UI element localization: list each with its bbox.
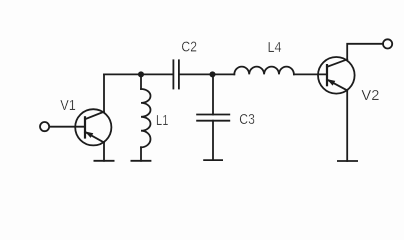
ground under L1	[131, 160, 150, 162]
output terminal	[383, 39, 392, 48]
node junction at C3	[209, 71, 215, 77]
svg-text:L4: L4	[268, 39, 282, 56]
wire L4 to V2 base	[294, 73, 327, 75]
transistor V1	[75, 109, 111, 145]
ground under V2	[338, 160, 357, 162]
svg-text:C3: C3	[239, 111, 255, 128]
wire input to V1 base	[49, 126, 85, 128]
svg-text:C2: C2	[181, 39, 197, 56]
inductor L1	[141, 74, 151, 160]
svg-text:V1: V1	[60, 97, 76, 114]
capacitor C3	[197, 74, 229, 160]
ground under V1	[94, 160, 113, 162]
wire top rail left segment	[104, 73, 173, 75]
ground under C3	[204, 159, 222, 161]
input terminal	[40, 122, 49, 131]
wire V1 emitter down	[103, 143, 105, 161]
wire C2 to node	[179, 73, 234, 75]
node junction at L1	[138, 71, 144, 77]
svg-text:V2: V2	[361, 87, 379, 104]
wire V1 collector up	[103, 74, 105, 111]
wire V2 collector up and right	[347, 44, 383, 60]
svg-text:L1: L1	[156, 112, 168, 129]
wire V2 emitter down	[346, 90, 348, 161]
capacitor C2	[173, 60, 179, 88]
inductor L4	[234, 67, 294, 75]
transistor V2	[318, 57, 355, 94]
